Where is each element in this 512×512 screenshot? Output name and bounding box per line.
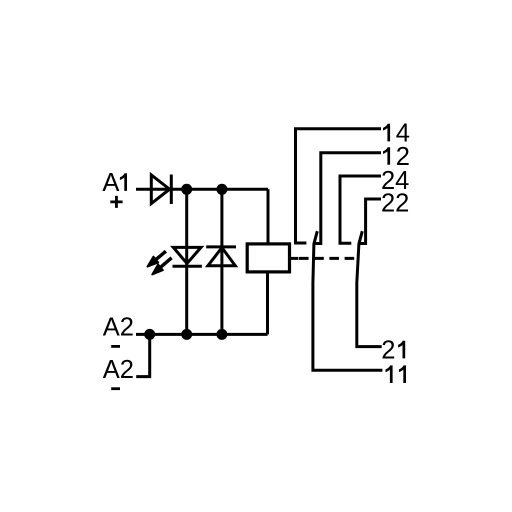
svg-text:22: 22: [381, 190, 409, 218]
wire diode branch vertical: [220, 189, 223, 334]
LED emission arrow upper: [147, 251, 166, 266]
contact arm left (11-12-14): [313, 231, 383, 370]
wire terminal 12: [315, 153, 381, 244]
diode D2 cathode bar: [206, 245, 236, 248]
svg-text:A: A: [102, 169, 119, 197]
wire A1 horizontal to coil corner: [136, 188, 268, 191]
diode D1 cathode bar: [170, 175, 173, 205]
wire terminal 24: [340, 176, 381, 243]
terminal 14 label: [383, 119, 410, 147]
LED emission arrow lower: [152, 258, 171, 275]
minus sign under second A2: [111, 387, 120, 390]
contact arm right (21-22-24): [357, 231, 382, 346]
node dot A2 (diode branch): [216, 329, 227, 340]
relay coil K1: [247, 244, 289, 272]
terminal 11 label: [386, 365, 407, 383]
node dot A2 (second terminal branch): [144, 329, 155, 340]
node dot A2 (LED branch): [181, 329, 192, 340]
wire terminal 14: [296, 129, 382, 243]
plus sign under A1: [110, 196, 122, 208]
terminal 22 label: [381, 190, 409, 218]
wire coil top drop: [267, 189, 270, 244]
terminal 12 label: [383, 143, 410, 171]
coil right stub: [290, 257, 299, 260]
node dot on A1 line (diode branch): [216, 184, 227, 195]
svg-text:2: 2: [381, 336, 395, 364]
node dot on A1 line (LED branch): [181, 184, 192, 195]
wire A2 second terminal stub: [136, 334, 150, 376]
terminal A1 label: [102, 169, 127, 197]
terminal A2 second label: [103, 356, 134, 384]
svg-text:A2: A2: [103, 314, 134, 342]
svg-text:A2: A2: [103, 356, 134, 384]
LED cathode bar: [173, 265, 202, 268]
wire A2 horizontal: [136, 333, 268, 336]
terminal 21 label: [381, 336, 405, 364]
terminal A2 label: [103, 314, 134, 342]
LED triangle: [173, 247, 201, 263]
wire terminal 22: [360, 199, 381, 244]
wire coil bottom riser: [266, 272, 269, 335]
diode D1 triangle: [151, 175, 169, 204]
terminal 24 label: [381, 167, 409, 195]
wire LED branch vertical: [185, 189, 188, 334]
diode D2 triangle: [208, 248, 235, 266]
minus sign under A2: [111, 345, 120, 348]
dashed actuation line: [299, 257, 357, 260]
